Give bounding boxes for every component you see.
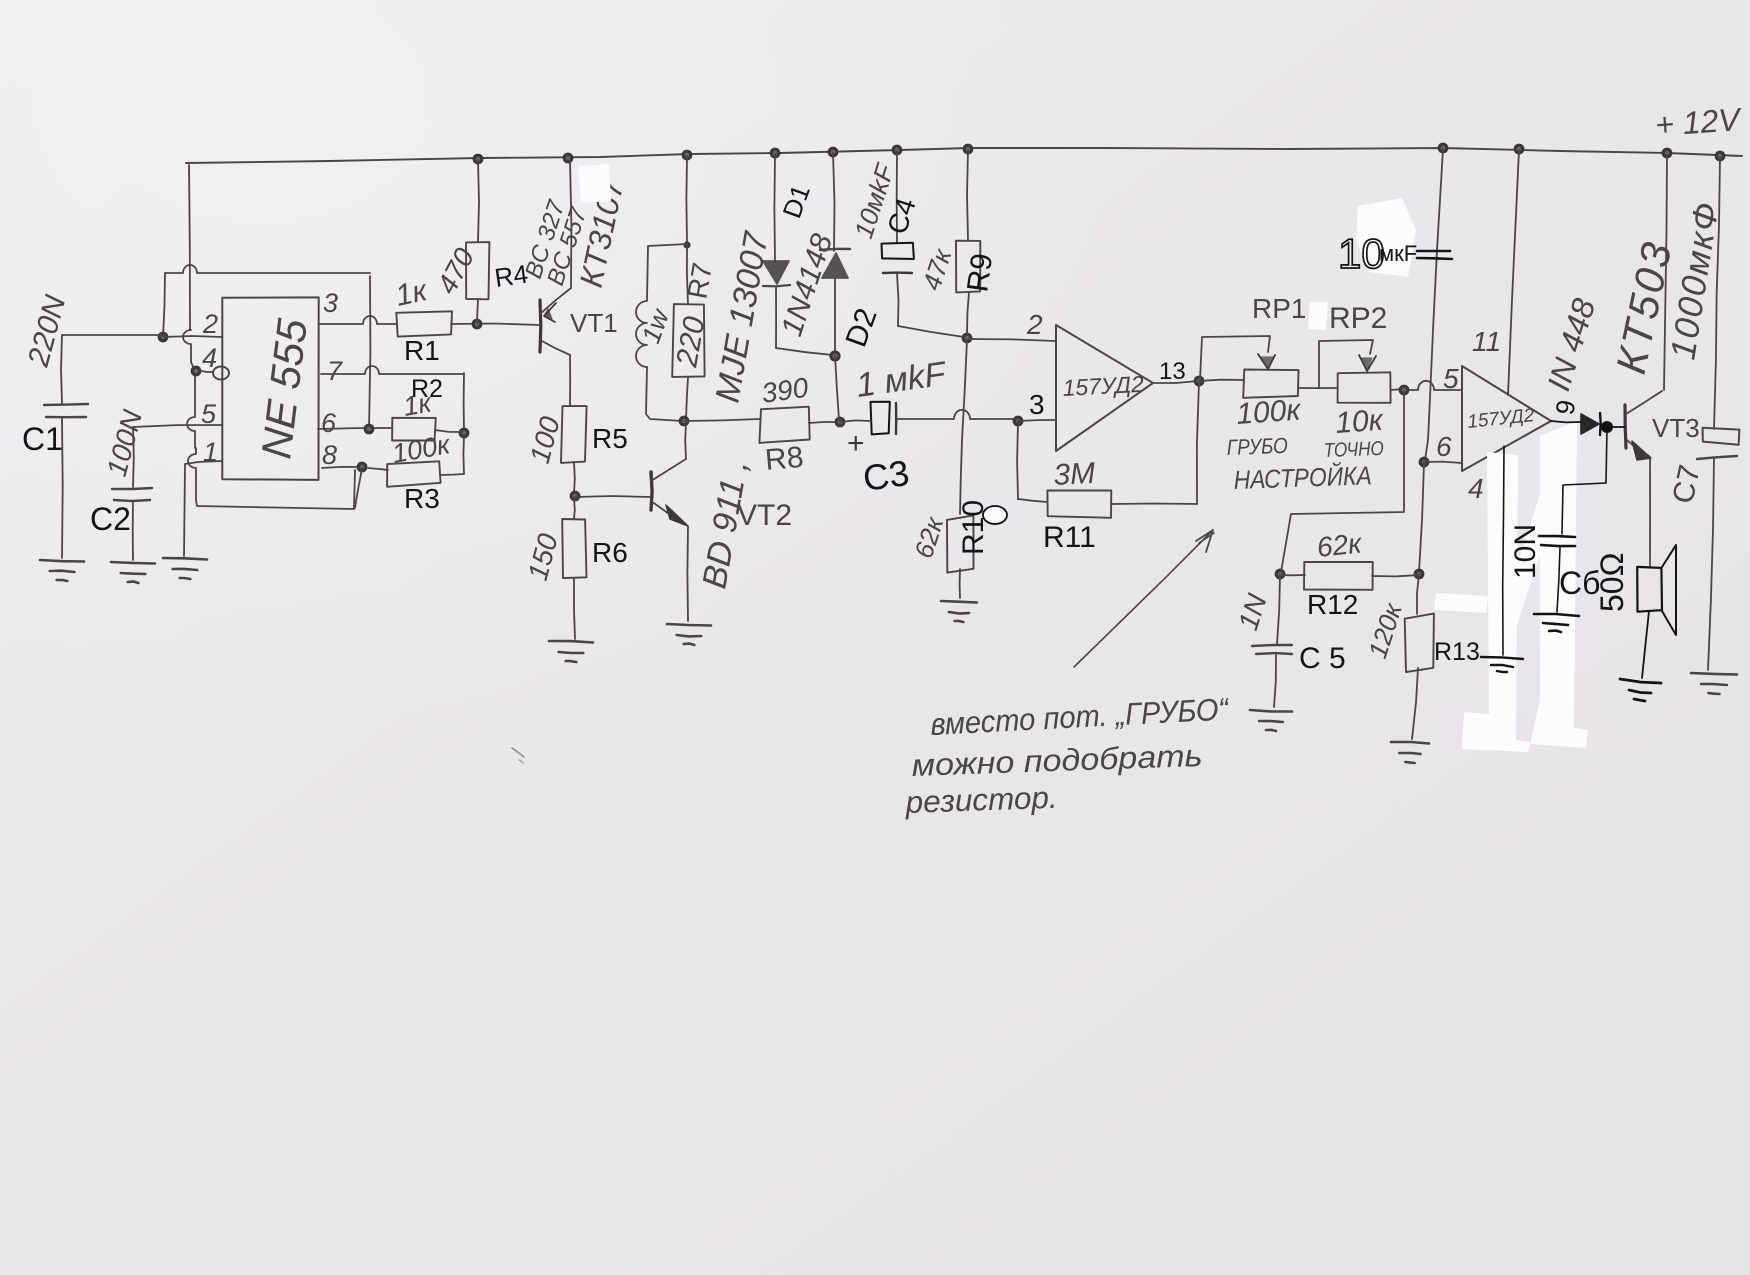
- white-out diagonal: [1492, 470, 1566, 646]
- node pin6 junction: [1420, 458, 1428, 466]
- resistor R1: [396, 311, 452, 336]
- wire RP1 to RP2: [1298, 387, 1337, 389]
- wire R12 left stub: [1280, 574, 1305, 576]
- ground C7: [1691, 673, 1737, 675]
- svg-text:6: 6: [321, 408, 337, 438]
- wire VT3 collector to rail: [1664, 154, 1667, 390]
- svg-text:C3: C3: [860, 452, 911, 499]
- svg-text:157УД2: 157УД2: [1062, 371, 1145, 401]
- svg-text:VT1: VT1: [570, 308, 618, 338]
- wire vertical x370 down to pin6: [369, 276, 370, 429]
- svg-text:2: 2: [202, 309, 218, 339]
- node pin3 junction: [1014, 417, 1022, 425]
- resistor R8: [759, 407, 809, 443]
- wire R8 to C3 node: [809, 422, 838, 423]
- transistor VT3 emitter lead: [1627, 440, 1649, 456]
- wire pin7 elbow down: [463, 373, 465, 432]
- wire pin11 from rail: [1508, 150, 1519, 395]
- ground pin4 black: [1481, 657, 1523, 659]
- node pin6 junction: [365, 425, 373, 433]
- node R2 right junction: [460, 429, 468, 437]
- wire pin7 with jump: [321, 366, 464, 374]
- node rail-D: [771, 149, 779, 157]
- wire op-amp1 output: [1153, 381, 1198, 383]
- svg-text:R11: R11: [1043, 521, 1096, 554]
- wire pin8 to R3: [368, 468, 388, 470]
- wire node down to R10: [962, 340, 967, 440]
- wire R10 to ground: [959, 569, 961, 598]
- node RP2 right junction: [1400, 386, 1408, 394]
- node R8/D2/C3 junction: [836, 418, 844, 426]
- resistor R12: [1304, 562, 1373, 590]
- diode VD2 1N448: [1581, 414, 1599, 434]
- wire R12 right stub: [1372, 575, 1419, 576]
- node rail-I: [1515, 145, 1523, 153]
- resistor R2: [392, 418, 436, 441]
- ground R6: [549, 641, 593, 643]
- node rail-A: [474, 155, 482, 163]
- IC U1 NE555 box: [222, 297, 318, 480]
- wire pin6 stub: [318, 428, 392, 429]
- svg-text:R9: R9: [961, 251, 999, 294]
- node rail-J: [1663, 149, 1671, 157]
- node pin2 junction: [159, 333, 167, 341]
- wire R4 bottom: [477, 299, 478, 323]
- speaker 50ohm: [1637, 567, 1662, 612]
- wire R9 from rail: [967, 150, 968, 240]
- node rail-H: [1439, 144, 1447, 152]
- wire R7 bottom: [686, 377, 688, 420]
- svg-text:ГРУБО: ГРУБО: [1226, 433, 1288, 460]
- ground R13: [1391, 742, 1429, 744]
- wire R3 right to elbow: [440, 474, 464, 475]
- wire junction to VT2 base: [575, 496, 650, 497]
- svg-text:11: 11: [1472, 326, 1501, 357]
- svg-text:10к: 10к: [1334, 404, 1386, 440]
- wire D1 to D2 node: [776, 348, 833, 355]
- svg-text:2: 2: [1026, 309, 1043, 340]
- node rail-G: [964, 145, 972, 153]
- wire pin4 down black: [1503, 446, 1504, 655]
- wire pin5 to C2: [133, 425, 222, 427]
- svg-text:8: 8: [322, 440, 337, 470]
- resistor R7: [687, 245, 688, 304]
- ground C1: [40, 560, 84, 562]
- ground C6 black: [1534, 614, 1579, 616]
- annotation arrow to RP1: [1074, 532, 1211, 667]
- wire pin6 node down to R12: [1419, 463, 1424, 572]
- node pin4 dot: [192, 367, 200, 375]
- pin4 open circle: [213, 367, 229, 380]
- ground C5: [1250, 710, 1292, 712]
- svg-text:6: 6: [1436, 431, 1452, 462]
- capacitor C4 plates: [882, 243, 914, 259]
- wire pin8 node down to vcc feed: [355, 468, 362, 508]
- transistor VT1 emitter: [540, 288, 571, 314]
- transistor VT2 collector: [651, 459, 686, 481]
- wire to C6 black elbow: [1562, 428, 1607, 534]
- resistor R10: [947, 515, 974, 572]
- wire pin3 to R1: [319, 316, 397, 324]
- wire RP2 node down-left to R12/C5 node: [1281, 391, 1404, 572]
- diode D2: [820, 249, 850, 250]
- white blob with outline near R10: [983, 506, 1007, 524]
- wire RP2 to op-amp pin5 with jump: [1391, 388, 1403, 391]
- diode D1: [763, 261, 789, 284]
- RP2 wiper arrow: [1359, 355, 1376, 371]
- svg-text:10N: 10N: [1509, 524, 1542, 579]
- node R1/R4 junction: [473, 320, 481, 328]
- wire node to op-amp pin2: [967, 339, 1056, 341]
- node R12 right junction: [1415, 570, 1423, 578]
- node rail-F: [893, 146, 901, 154]
- ground VT2 emitter: [667, 624, 711, 626]
- potentiometer RP1: [1243, 370, 1298, 398]
- stray pencil mark: [512, 748, 524, 757]
- svg-text:R10: R10: [957, 500, 990, 555]
- ground C2: [111, 562, 155, 564]
- capacitor C2: [112, 488, 152, 489]
- capacitor C3 plates: [871, 402, 890, 435]
- svg-text:3: 3: [323, 288, 338, 318]
- svg-text:C 5: C 5: [1299, 642, 1346, 675]
- white-out right bar: [1530, 421, 1588, 748]
- wire C1 top: [62, 334, 163, 336]
- wire R4 top: [478, 160, 479, 242]
- op-amp U2 157UD2 triangle: [1056, 325, 1153, 451]
- ground pin1: [163, 558, 207, 560]
- capacitor C6 black: [1539, 536, 1575, 537]
- svg-text:НАСТРОЙКА: НАСТРОЙКА: [1233, 460, 1372, 495]
- wire op-amp2 output black: [1551, 421, 1581, 422]
- transistor VT2 base bar: [651, 472, 652, 510]
- wire C7 from rail: [1714, 157, 1720, 429]
- wire speaker to ground: [1642, 611, 1649, 678]
- svg-text:VT3: VT3: [1652, 413, 1700, 443]
- node rail-E: [829, 148, 837, 156]
- node R7/VT2/R8 junction: [680, 417, 688, 425]
- svg-text:100к: 100к: [1235, 393, 1303, 431]
- svg-text:+ 12V: + 12V: [1654, 101, 1743, 143]
- svg-text:1: 1: [203, 437, 218, 467]
- wire D2 from rail: [833, 153, 835, 251]
- svg-text:7: 7: [327, 356, 343, 386]
- node R12 left junction: [1276, 570, 1284, 578]
- capacitor C5: [1277, 575, 1280, 644]
- wire C3 right to pin3 with jump: [896, 410, 1016, 419]
- wire pin8 stub: [322, 467, 360, 468]
- resistor R4: [466, 242, 489, 299]
- svg-text:R8: R8: [764, 441, 805, 477]
- wire junction to R8: [684, 419, 760, 421]
- svg-text:C1: C1: [22, 421, 63, 457]
- svg-text:4: 4: [1468, 473, 1484, 504]
- svg-text:R12: R12: [1307, 589, 1358, 620]
- node diode output junction: [1601, 421, 1613, 433]
- resistor R11: [1047, 490, 1111, 517]
- svg-text:13: 13: [1159, 358, 1186, 385]
- svg-text:мкF: мкF: [1379, 241, 1417, 266]
- resistor R13: [1417, 574, 1419, 614]
- ground speaker: [1620, 679, 1661, 683]
- wire C4 from rail: [896, 151, 898, 243]
- svg-text:3М: 3М: [1053, 457, 1096, 492]
- node rail-C: [683, 151, 691, 159]
- svg-text:C2: C2: [90, 501, 131, 537]
- wire R2 right stub: [435, 430, 462, 432]
- wire R7 top feed: [685, 156, 688, 243]
- svg-text:R6: R6: [592, 537, 628, 568]
- svg-text:R3: R3: [404, 483, 440, 514]
- wire coil branch: [647, 244, 687, 300]
- svg-text:50Ω: 50Ω: [1594, 552, 1630, 612]
- svg-text:R7: R7: [681, 260, 718, 301]
- wire pin2 stub: [163, 336, 222, 337]
- svg-text:390: 390: [760, 372, 811, 409]
- node R9/C4/pin2 junction: [963, 334, 971, 342]
- svg-text:RP1: RP1: [1252, 293, 1306, 324]
- white-out small blob: [1434, 593, 1488, 613]
- node pin8 junction: [358, 463, 366, 471]
- capacitor 10mkF plates: [1417, 250, 1450, 253]
- wire pin1 to ground: [184, 461, 222, 556]
- node D1/D2 junction: [831, 352, 839, 360]
- transistor VT1 collector: [540, 340, 570, 355]
- wire R11 feedback from pin3 node: [1016, 422, 1019, 499]
- wire top loop pin2 to x370: [165, 265, 370, 273]
- potentiometer RP2: [1338, 372, 1391, 403]
- resistor R5: [561, 406, 587, 463]
- wire R6 to ground: [574, 578, 575, 639]
- wire output to RP1: [1199, 380, 1244, 381]
- node output junction: [1195, 377, 1203, 385]
- resistor R3: [387, 461, 441, 487]
- wire diode to VT3 base: [1607, 426, 1625, 428]
- white-out patch near KT3107: [578, 164, 611, 203]
- wire R11 to output node: [1111, 503, 1197, 506]
- wire R1 to VT1 base: [451, 324, 540, 326]
- wire R13 to ground: [1412, 668, 1418, 739]
- svg-text:R1: R1: [404, 335, 440, 366]
- node rail-B: [564, 154, 572, 162]
- capacitor C1: [44, 404, 88, 405]
- transistor VT2 emitter: [651, 501, 686, 525]
- wire R5 bottom: [573, 462, 576, 494]
- svg-text:10: 10: [1338, 230, 1385, 277]
- white-out big left bar: [1462, 452, 1530, 752]
- wire pin6 stub: [1424, 462, 1462, 463]
- capacitor C7 plates: [1703, 428, 1740, 445]
- svg-text:RP2: RP2: [1329, 302, 1387, 335]
- wire D1 from rail: [773, 154, 776, 261]
- svg-text:5: 5: [1443, 363, 1459, 394]
- svg-text:+: +: [847, 427, 865, 460]
- node R7 top junction: [683, 241, 690, 248]
- RP1 wiper loop: [1200, 336, 1270, 380]
- wire +12V top rail: [186, 148, 1742, 163]
- wire C4 to R9 node: [898, 326, 964, 337]
- transistor VT3 collector lead: [1626, 391, 1662, 414]
- wire C3 left: [840, 420, 871, 422]
- svg-text:резистор.: резистор.: [904, 780, 1058, 820]
- resistor R6: [573, 498, 576, 519]
- transistor VT1 base bar: [538, 300, 542, 352]
- transistor VT3 base bar: [1625, 405, 1626, 448]
- wire +12V drop to pin4/pin8 of NE555: [189, 165, 190, 330]
- RP2 wiper loop: [1319, 340, 1373, 388]
- inductor coil 1w: [636, 301, 647, 367]
- svg-text:3: 3: [1029, 389, 1045, 420]
- node R5/R6/VT2 junction: [571, 492, 579, 500]
- svg-text:ТОЧНО: ТОЧНО: [1323, 438, 1384, 462]
- ground R10: [941, 601, 977, 603]
- svg-text:62к: 62к: [1315, 527, 1364, 563]
- svg-text:R5: R5: [592, 423, 628, 454]
- svg-text:5: 5: [201, 399, 217, 429]
- op-amp U3 157UD2 triangle: [1462, 366, 1551, 471]
- resistor R9: [956, 241, 980, 293]
- svg-text:R13: R13: [1434, 638, 1480, 666]
- wire R9 bottom: [967, 292, 969, 336]
- node rail-K: [1716, 152, 1724, 160]
- white-out patch near 10mkF: [1356, 198, 1416, 277]
- RP1 wiper arrow: [1258, 354, 1275, 369]
- wire 10mkF cap from rail: [1425, 149, 1443, 460]
